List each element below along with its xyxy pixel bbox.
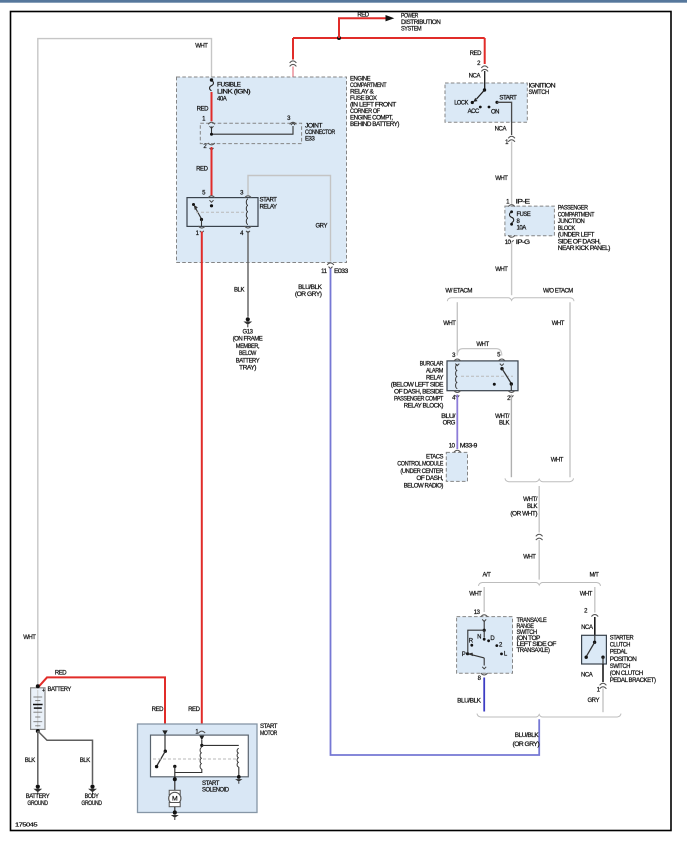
transaxle contact R (469, 639, 474, 647)
svg-text:BATTERY: BATTERY (26, 794, 50, 800)
svg-text:LOCK: LOCK (454, 101, 468, 107)
svg-text:NCA: NCA (581, 672, 593, 678)
diagram number (15, 823, 37, 829)
svg-text:START: START (260, 197, 278, 203)
engine compartment relay & fuse box (177, 77, 347, 263)
svg-text:ALARM: ALARM (426, 369, 443, 375)
pin 8 transaxle switch (478, 673, 488, 682)
svg-text:WHT: WHT (195, 44, 208, 50)
svg-text:PEDAL BRACKET): PEDAL BRACKET) (610, 678, 656, 684)
ignition ON contact (488, 106, 500, 116)
svg-text:(ON FRAME: (ON FRAME (233, 337, 263, 343)
wire WHT battery to fusible link (38, 39, 212, 686)
battery terminals (36, 684, 40, 733)
label RED above joint connector (197, 106, 209, 112)
svg-text:M33-9: M33-9 (460, 443, 478, 449)
starter clutch pedal position switch box (582, 635, 607, 664)
svg-text:WHT: WHT (476, 342, 489, 348)
svg-text:FUSE: FUSE (517, 212, 531, 218)
svg-text:NCA: NCA (495, 127, 507, 133)
svg-text:G13: G13 (243, 330, 254, 336)
svg-text:RED: RED (188, 707, 200, 713)
svg-text:FUSE BOX: FUSE BOX (350, 96, 377, 102)
inline connector on PNK wire (290, 61, 297, 67)
burglar relay switch (493, 367, 513, 391)
brace merge WHT/BLK (505, 478, 574, 481)
svg-text:GRY: GRY (587, 698, 599, 704)
svg-text:N: N (477, 634, 481, 640)
label WHT M/T branch (580, 592, 593, 598)
top blue title bar (0, 0, 687, 3)
svg-text:LINK (IGN): LINK (IGN) (217, 90, 251, 96)
svg-text:SWITCH: SWITCH (610, 664, 630, 670)
svg-text:POWER: POWER (401, 14, 419, 20)
svg-text:WHT: WHT (580, 592, 593, 598)
label W/O ETACM (543, 288, 573, 294)
label WHT left side (23, 635, 36, 641)
label joint connector E33 (305, 124, 336, 143)
wire WHT merged down (538, 486, 540, 533)
pin 1 start relay (196, 226, 206, 237)
wire WHT to clutch pedal switch (594, 587, 596, 613)
label RED above start relay (196, 167, 208, 173)
label RED top branch (357, 12, 369, 18)
svg-text:POSITION: POSITION (610, 657, 637, 663)
pin 1 joint connector (202, 117, 215, 129)
svg-text:CORNER OF: CORNER OF (350, 109, 381, 115)
svg-text:M/T: M/T (590, 572, 600, 578)
svg-text:PEDAL: PEDAL (610, 650, 628, 656)
label WHT/BLK (495, 414, 510, 426)
svg-text:FUSIBLE: FUSIBLE (217, 83, 241, 89)
svg-text:MOTOR: MOTOR (260, 731, 278, 737)
label WHT jumper (476, 342, 489, 348)
label GRY clutch (587, 698, 599, 704)
pin 3 burglar relay (452, 353, 461, 366)
svg-text:STARTER: STARTER (610, 636, 634, 642)
start relay contact dot pin5 (210, 204, 213, 207)
svg-text:E33: E33 (305, 137, 315, 143)
label battery ground (26, 794, 50, 807)
svg-text:TRANSAXLE): TRANSAXLE) (517, 648, 550, 654)
arrow battery feed into solenoid (162, 730, 167, 735)
wire NCA to clutch switch (594, 617, 596, 635)
burglar relay dashed link (461, 375, 513, 377)
svg-text:WHT: WHT (443, 321, 456, 327)
label ignition switch (529, 83, 556, 96)
svg-text:(UNDER CENTER: (UNDER CENTER (400, 469, 444, 475)
svg-text:START: START (260, 724, 278, 730)
label NCA clutch top (581, 625, 593, 631)
label PNK (277, 106, 288, 112)
pin 3 start relay (240, 191, 251, 198)
svg-text:(OR WHT): (OR WHT) (510, 511, 537, 517)
svg-text:BODY: BODY (85, 794, 99, 800)
svg-text:40A: 40A (217, 97, 227, 103)
wire NCA into ignition switch (484, 71, 486, 90)
svg-text:NCA: NCA (581, 625, 593, 631)
transaxle arm to pin 8 (482, 658, 486, 669)
label WHT above split (495, 267, 508, 273)
svg-text:WHT: WHT (523, 555, 536, 561)
wire RED drop to joint connector (left) (292, 38, 294, 60)
svg-text:(IN LEFT FRONT: (IN LEFT FRONT (350, 103, 397, 109)
svg-text:CONTROL MODULE: CONTROL MODULE (397, 462, 443, 468)
wire WHT right branch (569, 302, 571, 477)
svg-text:SYSTEM: SYSTEM (401, 27, 422, 33)
ground body (88, 785, 97, 795)
label BLU/BLK (OR GRY) bottom (513, 733, 540, 748)
pin 5 start relay (202, 191, 215, 203)
pin 1 IP-E (506, 200, 530, 207)
wire RED fusible link to joint connector (211, 92, 213, 121)
wire GRY start relay coil to E033 (248, 176, 331, 262)
svg-text:BLK: BLK (527, 504, 537, 510)
svg-text:BLK: BLK (25, 758, 35, 764)
label WHT right branch upper (552, 321, 565, 327)
svg-text:COMPARTMENT: COMPARTMENT (350, 83, 387, 89)
wire WHT left branch to burglar relay (456, 302, 458, 355)
pin 2 clutch switch (584, 609, 598, 617)
solenoid hold-in coil (202, 745, 239, 776)
solenoid fixed contact (173, 765, 177, 790)
pin 5 burglar relay (497, 353, 505, 366)
label fusible link (217, 83, 251, 103)
pin 13 transaxle switch (474, 610, 488, 622)
svg-text:NCA: NCA (469, 74, 481, 80)
burglar alarm relay box (447, 361, 518, 391)
svg-text:(UNDER LEFT: (UNDER LEFT (558, 233, 595, 239)
svg-text:BLK: BLK (499, 420, 509, 426)
svg-text:175045: 175045 (15, 823, 37, 829)
svg-text:WHT: WHT (552, 321, 565, 327)
burglar relay coil (456, 365, 458, 389)
pin 2 label ignition switch (477, 61, 481, 67)
label NCA ignition bottom (495, 127, 507, 133)
pin 4 burglar relay (452, 391, 461, 402)
svg-text:WHT: WHT (23, 635, 36, 641)
label A/T (483, 572, 492, 578)
label BLK battery ground (25, 758, 35, 764)
burglar alarm relay jumper wire WHT (457, 349, 502, 356)
battery B1 (31, 688, 46, 730)
label M/T (590, 572, 600, 578)
svg-text:MEMBER,: MEMBER, (236, 344, 260, 350)
label body ground (81, 794, 102, 807)
svg-text:RED: RED (55, 670, 67, 676)
label RED battery top (55, 670, 67, 676)
svg-text:WHT: WHT (469, 592, 482, 598)
joint connector internal wire (210, 126, 293, 136)
connector at ignition pin 2 (481, 66, 488, 72)
connector E033 (321, 263, 349, 275)
pin 3 joint connector (287, 116, 296, 125)
pin 4 start relay (240, 226, 251, 237)
transaxle contact 2 (495, 643, 503, 649)
svg-text:RED: RED (152, 707, 164, 713)
wire BLU/BLK (OR GRY) long run (331, 269, 540, 756)
svg-text:RED: RED (196, 167, 208, 173)
solenoid pull-in coil (175, 740, 204, 773)
svg-text:SOLENOID: SOLENOID (202, 787, 230, 793)
pin 1 start motor (195, 729, 205, 740)
svg-text:PASSENGER COMPT: PASSENGER COMPT (394, 397, 444, 403)
label BLU/ORG (441, 414, 456, 426)
svg-text:NEAR KICK PANEL): NEAR KICK PANEL) (558, 246, 611, 252)
fuse 8 10A (510, 210, 514, 225)
start motor box (138, 724, 258, 813)
label WHT top (195, 44, 208, 50)
fusible link (IGN) 40A (210, 78, 214, 90)
arrowhead to power distribution system (386, 15, 395, 21)
start relay moving contact (200, 218, 203, 226)
svg-text:WHT: WHT (495, 176, 508, 182)
svg-text:CONNECTOR: CONNECTOR (305, 130, 336, 136)
label clutch pedal switch (610, 636, 656, 684)
svg-text:BLOCK: BLOCK (558, 226, 575, 232)
start relay switch arm (192, 203, 202, 219)
svg-text:M: M (172, 796, 178, 803)
ground solenoid coil (235, 775, 242, 784)
svg-text:ON: ON (491, 110, 499, 116)
svg-text:10A: 10A (517, 225, 527, 231)
ignition LOCK contact (454, 101, 474, 107)
svg-text:BLU/BLK: BLU/BLK (515, 733, 539, 739)
wire BLK battery ground (37, 731, 39, 784)
clutch switch internals (585, 635, 605, 664)
pin 2 joint connector (203, 143, 214, 150)
wire WHT/BLK burglar relay down (510, 395, 512, 478)
svg-text:START: START (499, 96, 517, 102)
start relay dashed link (196, 211, 246, 213)
transaxle contact L (500, 652, 508, 658)
svg-text:JOINT: JOINT (305, 124, 323, 130)
label BLK (234, 287, 244, 293)
svg-text:RELAY &: RELAY & (350, 90, 374, 96)
label W/ ETACM (445, 288, 472, 294)
svg-text:WHT/: WHT/ (495, 414, 510, 420)
svg-text:START: START (202, 781, 220, 787)
label NCA ignition top (469, 74, 481, 80)
svg-text:OF DASH, BESIDE: OF DASH, BESIDE (394, 390, 443, 396)
label BLU/BLK (OR GRY) left (295, 285, 322, 298)
svg-text:ACC: ACC (468, 109, 480, 115)
wire PNK to joint connector (292, 67, 294, 122)
svg-text:BLK: BLK (234, 287, 244, 293)
wire RED branch to power distribution (339, 18, 386, 38)
wire WHT junction block to split (511, 242, 513, 296)
svg-text:SWITCH: SWITCH (529, 90, 549, 96)
label burglar alarm relay (391, 362, 444, 410)
svg-text:TRAY): TRAY) (239, 366, 256, 372)
svg-text:WHT/: WHT/ (523, 497, 538, 503)
wire WHT ignition to junction block (511, 142, 513, 205)
svg-text:BATTERY: BATTERY (236, 358, 260, 364)
ground G13 (243, 317, 252, 327)
ground start motor (171, 810, 179, 820)
label WHT left branch (443, 321, 456, 327)
svg-text:(OR GRY): (OR GRY) (295, 292, 322, 298)
svg-text:ETACS: ETACS (426, 455, 443, 461)
svg-text:W/O ETACM: W/O ETACM (543, 288, 573, 294)
svg-text:W/ ETACM: W/ ETACM (445, 288, 472, 294)
svg-text:(ON CLUTCH: (ON CLUTCH (610, 671, 643, 677)
label start relay (260, 197, 278, 210)
svg-text:CLUTCH: CLUTCH (610, 643, 630, 649)
svg-text:WHT: WHT (551, 457, 564, 463)
label ETACS control module (397, 455, 444, 490)
transaxle internal wiring (468, 621, 486, 653)
wire RED start relay to start motor (201, 232, 203, 731)
wire BLU/BLK transaxle down (483, 678, 485, 712)
wire NCA clutch switch down (602, 664, 604, 682)
ignition switch arm (473, 88, 486, 102)
brace merge BLU/BLK OR GRY (477, 714, 621, 717)
label NCA clutch bottom (581, 672, 593, 678)
label WHT above split2 (523, 555, 536, 561)
solenoid dashed link (153, 758, 238, 760)
connector ignition pin 1 (505, 136, 515, 146)
svg-text:GROUND: GROUND (81, 801, 102, 807)
svg-text:BLU/BLK: BLU/BLK (298, 285, 322, 291)
transaxle contact P (462, 652, 469, 658)
svg-text:+: + (42, 688, 45, 694)
label WHT/BLK (OR WHT) (510, 497, 537, 518)
svg-text:BELOW: BELOW (239, 351, 257, 357)
node POWER DISTRIBUTION SYSTEM (401, 14, 441, 33)
wire GRY clutch switch down (602, 689, 604, 713)
svg-text:BLU/: BLU/ (441, 414, 456, 420)
ignition ACC contact (468, 106, 482, 115)
label WHT right branch lower (551, 457, 564, 463)
transaxle contact D (487, 636, 495, 642)
wire BLK start relay to G13 (247, 231, 249, 317)
label RED relay branch (188, 707, 200, 713)
wire WHT to transaxle range switch (483, 587, 485, 612)
svg-text:SIDE OF DASH,: SIDE OF DASH, (558, 239, 601, 245)
inline connector mid wire (536, 534, 543, 540)
wire RED trunk from battery feed (293, 37, 485, 39)
svg-text:IP-G: IP-G (516, 240, 531, 246)
start relay coil (246, 199, 248, 225)
ground battery (33, 785, 42, 795)
wire BLU/ORG to ETACS module (456, 395, 458, 450)
transaxle contact N (477, 634, 485, 640)
svg-text:WHT: WHT (495, 267, 508, 273)
svg-text:GROUND: GROUND (27, 801, 48, 807)
svg-text:RED: RED (357, 12, 369, 18)
ignition START contact (495, 96, 517, 104)
svg-text:(OR GRY): (OR GRY) (513, 742, 540, 748)
label RED at ignition drop (470, 51, 482, 57)
brace split ETACM (447, 298, 574, 301)
svg-text:BEHIND BATTERY): BEHIND BATTERY) (350, 122, 399, 128)
svg-text:GRY: GRY (315, 223, 327, 229)
svg-text:A/T: A/T (483, 572, 492, 578)
ignition switch box (445, 83, 527, 122)
start solenoid inner box (151, 735, 249, 777)
svg-text:DISTRIBUTION: DISTRIBUTION (401, 20, 441, 26)
svg-text:BELOW RADIO): BELOW RADIO) (404, 483, 444, 489)
svg-text:RELAY BLOCK): RELAY BLOCK) (404, 404, 444, 410)
label BLU/BLK transaxle (457, 698, 481, 704)
svg-text:(BELOW LEFT SIDE: (BELOW LEFT SIDE (391, 383, 444, 389)
pin 10 IP-G (505, 235, 531, 246)
svg-text:OF DASH,: OF DASH, (416, 476, 443, 482)
wire RED battery to start motor (39, 677, 165, 730)
svg-text:JUNCTION: JUNCTION (558, 219, 585, 225)
svg-text:E033: E033 (334, 269, 349, 275)
label G13 (233, 330, 263, 372)
label BLK body ground (80, 758, 90, 764)
svg-text:BLU/BLK: BLU/BLK (457, 698, 481, 704)
svg-text:RED: RED (197, 106, 209, 112)
wire RED joint connector to start relay (211, 147, 213, 196)
connector clutch pin 1 (597, 683, 607, 693)
ETACS control module box (446, 452, 467, 481)
label engine compartment box (350, 77, 399, 129)
label transaxle range switch (517, 618, 557, 654)
svg-text:P: P (462, 652, 466, 658)
svg-text:RED: RED (470, 51, 482, 57)
svg-text:BATTERY: BATTERY (48, 687, 72, 693)
svg-text:IP-E: IP-E (516, 200, 530, 206)
svg-text:RELAY: RELAY (426, 376, 443, 382)
transaxle switch arm (468, 653, 485, 658)
pin 2 burglar relay (507, 391, 515, 403)
label WHT A/T branch (469, 592, 482, 598)
pin 10 M33-9 (449, 443, 478, 452)
label passenger junction block (558, 206, 611, 253)
svg-text:RELAY: RELAY (260, 204, 277, 210)
svg-text:BLK: BLK (80, 758, 90, 764)
label RED start motor branch (152, 707, 164, 713)
motor M symbol (169, 790, 181, 812)
transaxle range switch box (457, 617, 513, 674)
passenger compartment junction block box (505, 206, 555, 236)
svg-text:ENGINE COMPT,: ENGINE COMPT, (350, 116, 393, 122)
label WHT above junction block (495, 176, 508, 182)
svg-text:IGNITION: IGNITION (529, 83, 556, 89)
wire START contact to pin 1 (497, 102, 512, 135)
brace split A/T M/T (479, 583, 601, 586)
start relay K1 box (187, 198, 258, 227)
svg-text:BURGLAR: BURGLAR (420, 362, 444, 368)
svg-text:ORG: ORG (443, 420, 456, 426)
svg-text:ENGINE: ENGINE (350, 77, 371, 83)
svg-text:PASSENGER: PASSENGER (558, 206, 589, 212)
wire RED drop to ignition switch (484, 38, 486, 64)
label start motor (260, 724, 278, 737)
junction dot on RED trunk (337, 36, 341, 40)
label BATTERY (48, 687, 72, 693)
solenoid switch (155, 735, 167, 768)
label GRY (315, 223, 327, 229)
label start solenoid (202, 781, 230, 794)
joint connector E33 box (200, 123, 301, 143)
wire WHT to A/T M/T split (538, 540, 540, 580)
svg-text:COMPARTMENT: COMPARTMENT (558, 212, 595, 218)
wire BLK body ground (38, 731, 93, 784)
label fuse (517, 212, 531, 231)
